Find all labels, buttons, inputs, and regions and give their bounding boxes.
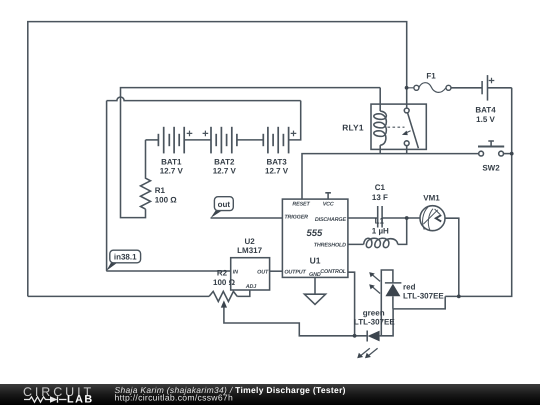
svg-text:LAB: LAB	[67, 394, 94, 405]
svg-text:VM1: VM1	[423, 193, 440, 202]
svg-text:12.7 V: 12.7 V	[265, 167, 289, 176]
svg-text:out: out	[218, 200, 231, 209]
svg-text:DISCHARGE: DISCHARGE	[315, 217, 347, 223]
svg-text:IN: IN	[233, 269, 238, 275]
svg-text:OUT: OUT	[257, 269, 269, 275]
svg-text:RESET: RESET	[292, 202, 310, 208]
svg-text:R1: R1	[155, 186, 166, 195]
svg-text:12.7 V: 12.7 V	[213, 167, 237, 176]
svg-text:SW2: SW2	[482, 163, 500, 172]
svg-text:TRIGGER: TRIGGER	[284, 215, 308, 221]
svg-text:BAT3: BAT3	[266, 157, 287, 166]
svg-text:VCC: VCC	[323, 202, 334, 208]
svg-text:OUTPUT: OUTPUT	[284, 270, 306, 276]
svg-text:LM317: LM317	[237, 246, 262, 255]
svg-text:in38.1: in38.1	[114, 252, 137, 261]
svg-text:L1: L1	[375, 217, 385, 226]
svg-text:RLY1: RLY1	[342, 122, 364, 132]
svg-text:CONTROL: CONTROL	[320, 269, 346, 275]
svg-text:http://circuitlab.com/cssw67h: http://circuitlab.com/cssw67h	[115, 392, 234, 402]
svg-text:1.5 V: 1.5 V	[476, 115, 495, 124]
svg-text:555: 555	[306, 228, 323, 239]
svg-text:LTL-307EE: LTL-307EE	[354, 318, 395, 327]
svg-text:BAT1: BAT1	[161, 157, 182, 166]
svg-text:GND: GND	[309, 272, 321, 278]
svg-text:ADJ: ADJ	[245, 284, 257, 290]
svg-text:100 Ω: 100 Ω	[213, 278, 236, 287]
svg-text:F1: F1	[426, 71, 436, 80]
svg-text:C1: C1	[375, 183, 386, 192]
svg-text:U2: U2	[244, 237, 255, 246]
svg-text:red: red	[403, 282, 416, 291]
svg-text:R2: R2	[217, 269, 228, 278]
svg-text:BAT2: BAT2	[214, 157, 235, 166]
svg-text:BAT4: BAT4	[475, 105, 496, 114]
svg-text:12.7 V: 12.7 V	[160, 167, 184, 176]
svg-text:U1: U1	[310, 255, 321, 265]
svg-text:LTL-307EE: LTL-307EE	[403, 292, 444, 301]
svg-text:green: green	[363, 308, 385, 317]
svg-text:13 F: 13 F	[372, 193, 388, 202]
svg-text:1 µH: 1 µH	[372, 226, 389, 235]
svg-text:THRESHOLD: THRESHOLD	[314, 242, 346, 248]
svg-text:100 Ω: 100 Ω	[155, 196, 178, 205]
